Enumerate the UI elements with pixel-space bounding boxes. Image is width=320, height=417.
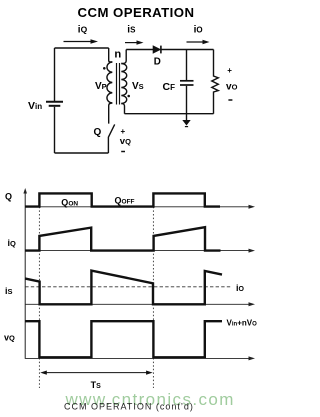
dashed iO level line: [25, 286, 231, 288]
arrow iQ: [64, 39, 99, 44]
transformer dot secondary: [127, 95, 130, 98]
dashed vertical t1: [152, 196, 154, 388]
axis is horizontal: [25, 302, 255, 306]
arrow is: [125, 40, 144, 44]
arrow io: [187, 40, 210, 44]
wire: primary loop left (lower): [54, 107, 56, 153]
svg-text:Q: Q: [94, 127, 102, 138]
wire: secondary bottom: [125, 113, 214, 115]
ground: [182, 114, 190, 127]
waveform vertical axis: [23, 188, 27, 359]
label + vQ -: [120, 127, 131, 152]
wire: primary loop bottom: [55, 152, 109, 154]
axis Q horizontal: [25, 205, 255, 209]
svg-text:VS: VS: [132, 81, 144, 92]
svg-text:D: D: [154, 56, 161, 67]
dashed vertical t0: [38, 196, 40, 388]
Ts dimension arrow: [40, 371, 153, 375]
svg-text:Vin: Vin: [28, 100, 42, 112]
svg-text:TS: TS: [91, 380, 102, 390]
svg-text:iO: iO: [194, 24, 203, 35]
switch Q blade: [108, 124, 114, 153]
transformer T1: primary winding VP: [107, 48, 112, 124]
axis iQ horizontal: [25, 249, 255, 253]
svg-text:vQ: vQ: [4, 333, 15, 343]
svg-text:QOFF: QOFF: [115, 195, 135, 205]
waveform Q: [25, 193, 220, 206]
svg-text:Vin+nVO: Vin+nVO: [227, 319, 258, 328]
wire: secondary top (diode to load corner): [162, 49, 214, 51]
svg-text:CF: CF: [163, 81, 176, 93]
transformer T1: core: [117, 63, 120, 105]
transformer T1: secondary winding VS: [121, 50, 126, 114]
svg-text:+: +: [121, 127, 126, 136]
label + vO -: [226, 66, 238, 100]
diode D: [153, 46, 161, 54]
svg-text:CCM OPERATION: CCM OPERATION: [78, 5, 195, 20]
svg-text:n: n: [114, 48, 121, 60]
waveform iQ: [25, 227, 220, 250]
svg-text:iS: iS: [127, 24, 136, 35]
svg-text:iQ: iQ: [78, 24, 88, 35]
svg-text:iQ: iQ: [8, 238, 17, 248]
svg-text:Q: Q: [5, 192, 12, 202]
svg-text:CCM OPERATION (cont’d): CCM OPERATION (cont’d): [64, 402, 194, 412]
wire: primary loop top: [55, 47, 109, 49]
svg-text:+: +: [227, 66, 232, 75]
resistor load: [212, 50, 219, 114]
wire: secondary top (to diode): [126, 49, 153, 51]
transformer dot primary: [103, 67, 106, 70]
svg-text:vQ: vQ: [120, 136, 131, 147]
svg-text:VP: VP: [95, 81, 107, 92]
wire: primary loop left (upper): [54, 48, 56, 101]
svg-text:QON: QON: [61, 197, 78, 207]
capacitor CF: [180, 50, 194, 114]
waveform vQ: [25, 321, 222, 357]
svg-text:vO: vO: [226, 82, 238, 93]
axis vQ horizontal: [25, 356, 255, 360]
waveform is: [25, 271, 222, 305]
svg-text:iS: iS: [5, 286, 13, 296]
battery Vin: [46, 102, 63, 106]
svg-text:iO: iO: [236, 283, 245, 293]
